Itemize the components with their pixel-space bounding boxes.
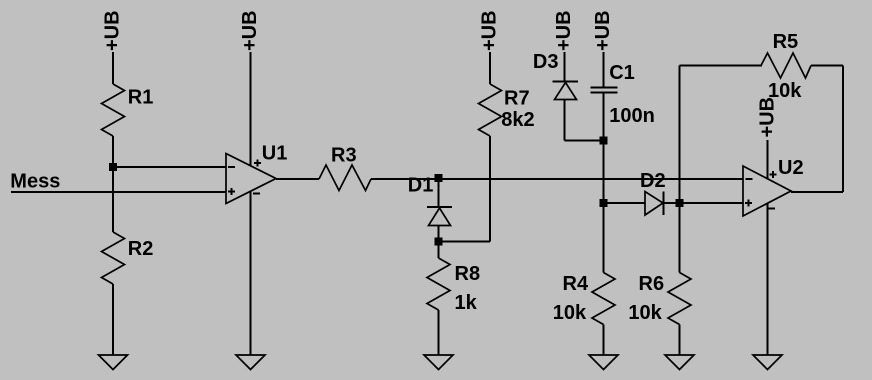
node A junction [109,163,117,171]
node E junction (D2/R6/feedback) [676,199,684,207]
wire feedback top left [680,65,763,67]
wire node A to R2 [112,167,114,232]
wire U2 output [791,191,843,193]
wire U2 V- to ground [767,203,769,355]
U1 V+ marker [254,160,261,167]
op-amp U2 [743,166,791,216]
wire U1 output to R3 [276,178,319,180]
wire R1 to node A [112,136,114,167]
wire C1 down through node C to node D and R4 [603,94,605,273]
svg-text:Mess: Mess [10,170,60,192]
resistor R8 [427,258,450,310]
wire +UB to U1 V+ [250,52,252,166]
wire R4 to ground [603,325,605,356]
wire R7 to node B [439,241,491,243]
ground (R8) [424,355,453,370]
wire +UB to U2 V+ [767,140,769,179]
wire R2 to ground [112,284,114,355]
wire node B to R8 [438,242,440,259]
svg-text:U2: U2 [778,157,804,179]
node C junction (D3/C1) [600,137,608,145]
svg-text:R3: R3 [331,145,357,167]
node B junction (D1/R7/R8) [435,238,443,246]
resistor R6 [668,273,691,325]
svg-text:10k: 10k [628,302,662,324]
wire node E to R6 [679,203,681,273]
ground (R4) [589,355,618,370]
U1 V- marker [253,193,260,195]
svg-text:R7: R7 [504,87,530,109]
wire node D to D2 anode [604,202,646,204]
wire +UB to C1 [603,52,605,87]
svg-text:+UB: +UB [592,10,614,51]
svg-text:+UB: +UB [479,10,501,51]
svg-text:R2: R2 [128,238,154,260]
wire D1 to node B [438,226,440,242]
wire +UB to R1 [112,52,114,84]
ground (U1) [236,355,265,370]
svg-text:100n: 100n [609,105,655,127]
svg-text:+UB: +UB [757,97,779,138]
node D1 anode top [435,174,443,182]
wire R5 to feedback right corner [811,65,843,67]
diode D3 [553,82,579,100]
wire +UB to D3 cathode [564,52,566,81]
svg-text:R4: R4 [563,273,589,295]
ground (R6) [665,355,694,370]
wire +UB to R7 [489,52,491,84]
resistor R1 [102,84,125,136]
svg-text:R8: R8 [455,263,481,285]
svg-text:8k2: 8k2 [501,109,534,131]
wire node A to U1 inverting input [113,166,226,168]
svg-text:+UB: +UB [239,10,261,51]
U1 inverting input marker [228,166,235,168]
wire R7 down across main net [489,136,491,242]
capacitor C1 [591,88,618,93]
diode D2 [645,192,664,216]
svg-text:C1: C1 [609,62,635,84]
wire D2 cathode to U2 non-inverting input [664,202,744,204]
wire D3 to node C [565,140,604,142]
wire feedback riser (node E to R5) [679,66,681,204]
wire feedback right drop [842,66,844,193]
diode D1 [427,207,452,226]
ground (U2) [753,355,782,370]
U2 V- marker [768,208,775,210]
wire R8 to ground [438,310,440,355]
resistor R4 [592,273,615,325]
U1 non-inverting input marker [228,188,235,195]
svg-text:R5: R5 [773,31,799,53]
svg-text:+UB: +UB [553,10,575,51]
svg-text:D1: D1 [408,175,434,197]
wire node to D1 cathode [438,179,440,207]
resistor R3 [319,165,371,191]
U2 V+ marker [770,171,777,178]
op-amp U1 [226,154,276,204]
svg-text:U1: U1 [262,143,288,165]
svg-text:+UB: +UB [102,10,124,51]
U2 non-inverting input marker [745,200,752,207]
wire R3 to U2 inverting input (main net) [371,178,743,180]
wire U1 V- to ground [250,191,252,355]
svg-text:R6: R6 [639,273,665,295]
svg-text:1k: 1k [455,292,478,314]
resistor R5 [761,53,811,78]
U2 inverting input marker [746,178,753,180]
node D junction (C1/D2/R4) [600,199,608,207]
ground (R2) [99,355,128,370]
resistor R2 [102,232,125,284]
svg-text:D2: D2 [640,170,666,192]
svg-text:10k: 10k [553,302,587,324]
wire R6 to ground [679,325,681,356]
svg-text:R1: R1 [128,87,154,109]
svg-text:D3: D3 [533,51,559,73]
resistor R7 [479,84,502,136]
wire D3 anode down [564,100,566,141]
wire Mess to U1 non-inverting input [11,191,226,193]
